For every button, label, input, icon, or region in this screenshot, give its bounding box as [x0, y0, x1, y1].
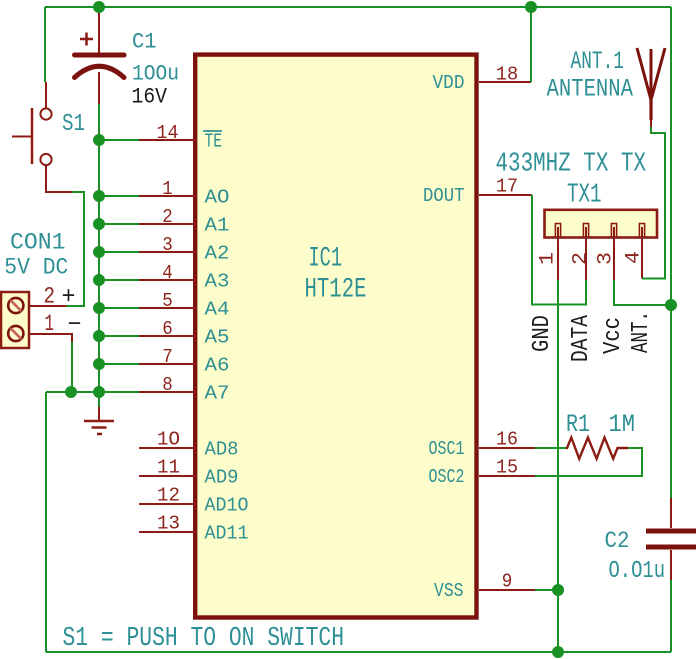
svg-text:8: 8	[162, 374, 173, 396]
junction A0 net	[93, 190, 105, 202]
svg-text:+: +	[62, 284, 76, 311]
pin 8 A7	[99, 374, 230, 405]
pin 14 TE	[99, 122, 222, 153]
svg-text:VSS: VSS	[434, 580, 464, 602]
pin 15 OSC2	[429, 457, 536, 489]
junction A2 net	[93, 246, 105, 258]
wire: right vertical rail	[670, 7, 672, 652]
capacitor C1	[75, 9, 180, 110]
svg-text:A4: A4	[205, 299, 230, 321]
svg-text:1O: 1O	[157, 429, 180, 451]
svg-text:−: −	[68, 312, 82, 339]
svg-text:CON1: CON1	[10, 230, 66, 257]
svg-text:VDD: VDD	[433, 72, 465, 94]
svg-text:IC1: IC1	[309, 244, 343, 275]
svg-text:A6: A6	[205, 355, 230, 377]
svg-text:433MHZ TX TX: 433MHZ TX TX	[496, 149, 647, 179]
svg-text:11: 11	[157, 457, 180, 479]
svg-text:S1 = PUSH TO ON SWITCH: S1 = PUSH TO ON SWITCH	[63, 623, 345, 653]
svg-text:R1: R1	[566, 410, 590, 439]
TX1 pin numbers 1-4	[537, 251, 646, 265]
junction CON1 pin1 / ground row	[65, 386, 77, 398]
svg-text:5V DC: 5V DC	[4, 255, 68, 282]
svg-text:4: 4	[623, 251, 646, 264]
IC IC1 HT12E (encoder) body	[195, 55, 476, 618]
svg-text:AD9: AD9	[205, 467, 239, 489]
wire: TX1 GND down to bottom rail	[557, 280, 559, 652]
wire: R1 to OSC2	[535, 448, 642, 476]
pin 10 AD8	[139, 429, 239, 461]
svg-text:16V: 16V	[132, 84, 168, 110]
wire: left vertical from top rail to S1	[44, 7, 46, 82]
svg-text:TX1: TX1	[567, 180, 602, 210]
svg-text:6: 6	[162, 318, 173, 340]
svg-text:HT12E: HT12E	[305, 275, 367, 306]
svg-text:TE: TE	[205, 131, 223, 153]
junction A3 net	[93, 274, 105, 286]
pin 2 A1	[99, 206, 230, 237]
svg-text:3: 3	[162, 234, 173, 256]
pin 6 A5	[99, 318, 230, 349]
wire: S1 to CON1 pin2	[66, 192, 84, 306]
junction A5 net	[93, 330, 105, 342]
pin 16 OSC1	[429, 429, 536, 461]
junction TE net	[93, 134, 105, 146]
TX1 pad labels GND DATA Vcc ANT.	[529, 311, 655, 362]
svg-text:OSC2: OSC2	[429, 466, 465, 488]
svg-text:9: 9	[502, 571, 513, 593]
svg-text:2: 2	[570, 252, 593, 265]
pin 1 A0	[99, 178, 230, 209]
junction Vcc / right rail	[665, 299, 677, 311]
svg-text:C2: C2	[605, 528, 630, 554]
wire: bottom rail	[46, 651, 671, 653]
junction A6 net	[93, 358, 105, 370]
svg-text:AD8: AD8	[205, 439, 239, 461]
pin 13 AD11	[139, 513, 249, 545]
wire: CON1 pin1 to ground row	[71, 342, 73, 392]
junction A4 net	[93, 302, 105, 314]
svg-text:A1: A1	[205, 215, 230, 237]
svg-text:DATA: DATA	[568, 315, 595, 362]
svg-text:ANTENNA: ANTENNA	[547, 75, 634, 104]
svg-text:A5: A5	[205, 327, 230, 349]
switch S1	[12, 82, 72, 192]
capacitor C2	[605, 498, 696, 585]
svg-text:18: 18	[496, 64, 519, 86]
module TX1 body	[496, 149, 658, 238]
svg-text:S1: S1	[62, 111, 85, 138]
wire: OSC1 to R1	[535, 447, 566, 449]
svg-text:2: 2	[44, 284, 56, 310]
svg-text:12: 12	[157, 485, 180, 507]
wire: VSS to GND column	[535, 589, 558, 591]
pin 4 A3	[99, 262, 230, 293]
svg-text:7: 7	[162, 346, 173, 368]
svg-text:3: 3	[595, 252, 618, 265]
pin 18 VDD	[433, 7, 532, 94]
svg-text:AO: AO	[205, 187, 230, 209]
resistor R1	[566, 410, 635, 459]
junction VSS / GND line	[552, 584, 564, 596]
svg-text:15: 15	[496, 457, 518, 479]
svg-text:DOUT: DOUT	[423, 185, 465, 207]
wire: TX1 ANT to antenna	[642, 127, 665, 279]
svg-text:1M: 1M	[609, 410, 636, 439]
wire: DOUT to TX1 DATA	[532, 195, 586, 305]
svg-text:GND: GND	[529, 315, 556, 352]
svg-text:C1: C1	[132, 29, 157, 55]
svg-text:16: 16	[496, 429, 518, 451]
svg-text:ANT.: ANT.	[628, 311, 655, 353]
svg-text:1: 1	[162, 178, 173, 200]
junction A7 / ground column	[93, 386, 105, 398]
svg-text:17: 17	[496, 176, 518, 198]
svg-text:14: 14	[157, 122, 179, 144]
wire: left bottom vertical (ground net)	[45, 392, 47, 652]
junction top wire / VDD	[525, 1, 537, 13]
wire: ground row (pin A7 net)	[46, 391, 139, 393]
pin 5 A4	[99, 290, 230, 321]
pin 7 A6	[99, 346, 230, 377]
svg-text:A2: A2	[205, 243, 230, 265]
pin 11 AD9	[139, 457, 239, 489]
pin 12 AD10	[139, 485, 249, 517]
svg-text:A3: A3	[205, 271, 230, 293]
pin 3 A2	[99, 234, 230, 265]
svg-text:OSC1: OSC1	[429, 438, 465, 460]
svg-text:1: 1	[537, 252, 560, 265]
svg-text:2: 2	[162, 206, 173, 228]
wire: top +5V rail	[45, 6, 671, 8]
junction GND line / bottom rail	[552, 646, 564, 658]
antenna ANT.1	[547, 47, 666, 127]
svg-text:5: 5	[162, 290, 173, 312]
svg-text:A7: A7	[205, 383, 230, 405]
svg-text:AD1O: AD1O	[205, 495, 249, 517]
svg-text:Vcc: Vcc	[600, 317, 627, 354]
svg-text:13: 13	[157, 513, 180, 535]
ground	[84, 392, 114, 434]
pin 17 DOUT	[423, 176, 532, 208]
connector CON1	[1, 230, 82, 349]
pin 9 VSS	[434, 571, 535, 603]
svg-text:AD11: AD11	[205, 523, 249, 545]
svg-text:4: 4	[162, 262, 173, 284]
svg-text:ANT.1: ANT.1	[571, 47, 625, 76]
junction top wire / C1	[93, 1, 105, 13]
wire: TX1 Vcc to right rail	[614, 280, 671, 305]
wire: C1 to junction column	[98, 104, 100, 392]
svg-text:O.O1u: O.O1u	[609, 558, 666, 585]
TX1 pin leads	[558, 227, 642, 280]
svg-text:1: 1	[45, 311, 55, 337]
junction A1 net	[93, 218, 105, 230]
